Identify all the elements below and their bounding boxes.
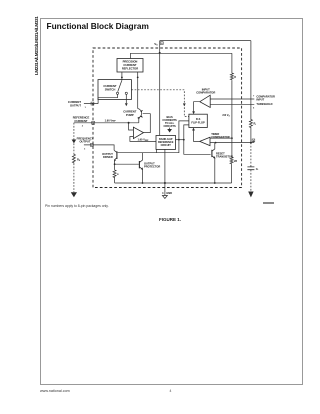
transistor output driver (114, 150, 117, 152)
block precision current reflector (117, 59, 143, 73)
transistor reset (211, 150, 213, 157)
node driver emitter (114, 163, 116, 165)
switch left contact (116, 92, 118, 94)
svg-text:CURRENT: CURRENT (123, 63, 136, 67)
wire reflector right output down to current pump (137, 72, 139, 109)
figure caption (120, 217, 220, 222)
svg-text:1.90 VREF: 1.90 VREF (105, 118, 117, 122)
pin 1 square (91, 102, 94, 105)
wire divider middle (231, 80, 233, 156)
svg-text:R: R (117, 174, 119, 176)
pin 8 square (160, 42, 163, 45)
svg-text:1: 1 (85, 107, 87, 109)
ground pin4 arrow (162, 196, 167, 199)
resistor 2R (230, 157, 233, 165)
footer url (40, 389, 70, 393)
svg-text:OUTPUT: OUTPUT (70, 103, 81, 107)
svg-text:CURRENT: CURRENT (68, 100, 81, 104)
wire switch right contact dump (125, 94, 127, 103)
footer page number (170, 389, 172, 393)
transistor output protection (138, 161, 140, 168)
svg-text:Ct: Ct (256, 167, 259, 171)
svg-text:2R: 2R (234, 160, 237, 163)
footnote (45, 204, 109, 208)
switch arm (118, 80, 122, 92)
arrow into flip-flop top (192, 111, 195, 114)
wire flip-flop output 2 to reset base (184, 125, 211, 154)
wire op-amp upper input from 1.90V node (129, 123, 134, 130)
ds number smudge (263, 202, 274, 204)
svg-text:CURRENT: CURRENT (74, 119, 87, 123)
page content border box (40, 18, 303, 385)
svg-text:2/3 VS: 2/3 VS (222, 113, 230, 117)
svg-text:REFERENCE: REFERENCE (73, 116, 90, 120)
wire pump base loop from op-amp output (143, 114, 151, 133)
svg-text:DRIVER: DRIVER (103, 155, 113, 159)
svg-text:VS: VS (154, 42, 158, 47)
node 1.90V tap (128, 122, 130, 124)
wire band-gap left stub to base line (156, 149, 158, 152)
op-amp input comparator (200, 95, 210, 107)
resistor emitter R (114, 164, 116, 169)
wire pin8 Vs vertical down to band-gap (159, 41, 161, 136)
svg-text:INPUT: INPUT (256, 98, 264, 102)
node reflector left output dot (121, 77, 123, 79)
node stub dot a (178, 139, 180, 141)
op-amp current pump amplifier (133, 127, 143, 138)
svg-text:FLIP-FLOP: FLIP-FLOP (191, 120, 205, 124)
svg-text:CIRCUIT: CIRCUIT (161, 144, 172, 147)
wire dashed control flip-flop to switch (131, 90, 189, 117)
svg-text:PROTECTOR: PROTECTOR (144, 164, 160, 168)
pin 5 square (252, 139, 255, 142)
transistor current pump PNP (138, 109, 142, 119)
arrow reference current down (72, 140, 77, 144)
svg-text:1: 1 (92, 104, 94, 106)
node rail reset emitter (214, 182, 216, 184)
resistor Rt (249, 119, 252, 128)
svg-text:FREQUENCY: FREQUENCY (77, 136, 94, 140)
wire to Rs (73, 143, 75, 153)
wire comparator output to flip-flop (194, 102, 200, 112)
svg-text:CURRENT: CURRENT (103, 84, 116, 88)
svg-text:Rt: Rt (254, 122, 257, 126)
svg-text:6: 6 (253, 108, 255, 110)
wire pin 7 comparator input (210, 98, 254, 100)
resistor Rs (72, 154, 75, 164)
wire pin 3 frequency output to driver collector (84, 145, 114, 150)
ground rail (115, 182, 232, 184)
wire timer lower input pin 5 line (210, 142, 254, 144)
svg-text:4: 4 (162, 191, 164, 195)
wire pump emitter to 1.90V line (138, 118, 140, 123)
wire Vs branch to reflector and divider (131, 53, 232, 58)
divider wire R top (231, 53, 233, 72)
block band-gap reference (156, 136, 176, 150)
svg-text:SWITCH: SWITCH (105, 88, 116, 92)
arrow into flip-flop bottom (192, 128, 195, 131)
svg-text:COMPARATOR: COMPARATOR (196, 91, 215, 95)
wire pin 2 / 1.90V line (74, 122, 139, 124)
svg-text:OUTPUT: OUTPUT (79, 140, 90, 144)
IC dashed boundary box (93, 48, 242, 188)
arrow bias down (168, 128, 171, 132)
wire junction to Ct dashed (250, 143, 252, 167)
wire Vs rail down right (250, 41, 252, 119)
ground Rs (71, 192, 77, 197)
node Vs junction (159, 52, 161, 54)
wire Rs to ground (73, 163, 75, 192)
wire band-gap to ground rail (164, 149, 166, 183)
wire timer output to flip-flop bottom (194, 130, 200, 141)
svg-text:1.90 VREF: 1.90 VREF (137, 137, 149, 141)
node reflector right output dot (137, 77, 139, 79)
wire pin 4 ground (164, 183, 166, 195)
node reset collector junction (215, 142, 217, 144)
svg-text:PRECISION: PRECISION (123, 60, 138, 64)
op-amp timer comparator (200, 137, 210, 145)
svg-text:RS: RS (77, 157, 81, 161)
ground Ct arrow (248, 192, 253, 198)
svg-text:GND: GND (166, 191, 172, 195)
arrow on control line (183, 103, 186, 106)
node stub dot b (183, 139, 185, 141)
pin 3 square (90, 144, 93, 147)
resistor R (230, 73, 233, 81)
svg-text:CURRENT: CURRENT (123, 109, 136, 113)
svg-text:CIRCUITS: CIRCUITS (163, 124, 176, 128)
switch right contact (125, 92, 127, 94)
wire op-amp lower input from band-gap (130, 137, 156, 142)
svg-text:TRANSISTOR: TRANSISTOR (216, 155, 233, 159)
svg-text:2: 2 (93, 123, 95, 125)
wire emitter node to protection base (115, 163, 139, 165)
node rail protection emitter (142, 182, 144, 184)
wire Vs top rail (160, 40, 251, 42)
arrow current dump down (125, 103, 128, 106)
svg-text:R-S: R-S (196, 117, 201, 121)
wire reflector left output (121, 72, 123, 80)
svg-text:PUMP: PUMP (126, 113, 134, 117)
svg-text:7: 7 (253, 96, 255, 98)
wire Rs dashed drop from pin2 (73, 123, 75, 140)
wire Rt to junction (250, 128, 252, 143)
wire 2R to rail (231, 164, 233, 183)
wire Ct to ground dashed (250, 170, 252, 192)
wire switch left contact to pin 1 (84, 94, 118, 103)
pin 2 square (92, 121, 95, 124)
wire timer upper input from divider (210, 137, 232, 139)
sidebar part number vertical text (34, 18, 61, 75)
wire band-gap right stub (176, 139, 184, 141)
arrow pump emitter (138, 117, 140, 119)
svg-text:THRESHOLD: THRESHOLD (256, 102, 272, 106)
wire flip-flop output 1 to driver base (118, 121, 189, 153)
node RtCt junction (250, 142, 252, 144)
svg-text:R: R (234, 76, 236, 79)
block current switch (98, 80, 131, 100)
svg-text:8: 8 (161, 43, 163, 45)
svg-text:3: 3 (84, 149, 86, 151)
svg-text:2: 2 (82, 126, 84, 128)
wire pin 6 threshold (210, 103, 254, 105)
svg-text:REFLECTOR: REFLECTOR (122, 67, 138, 71)
capacitor Ct (247, 167, 254, 170)
node divider tap (231, 137, 233, 139)
block R-S flip-flop (189, 114, 207, 127)
node rail bandgap (164, 182, 166, 184)
title (47, 21, 149, 31)
